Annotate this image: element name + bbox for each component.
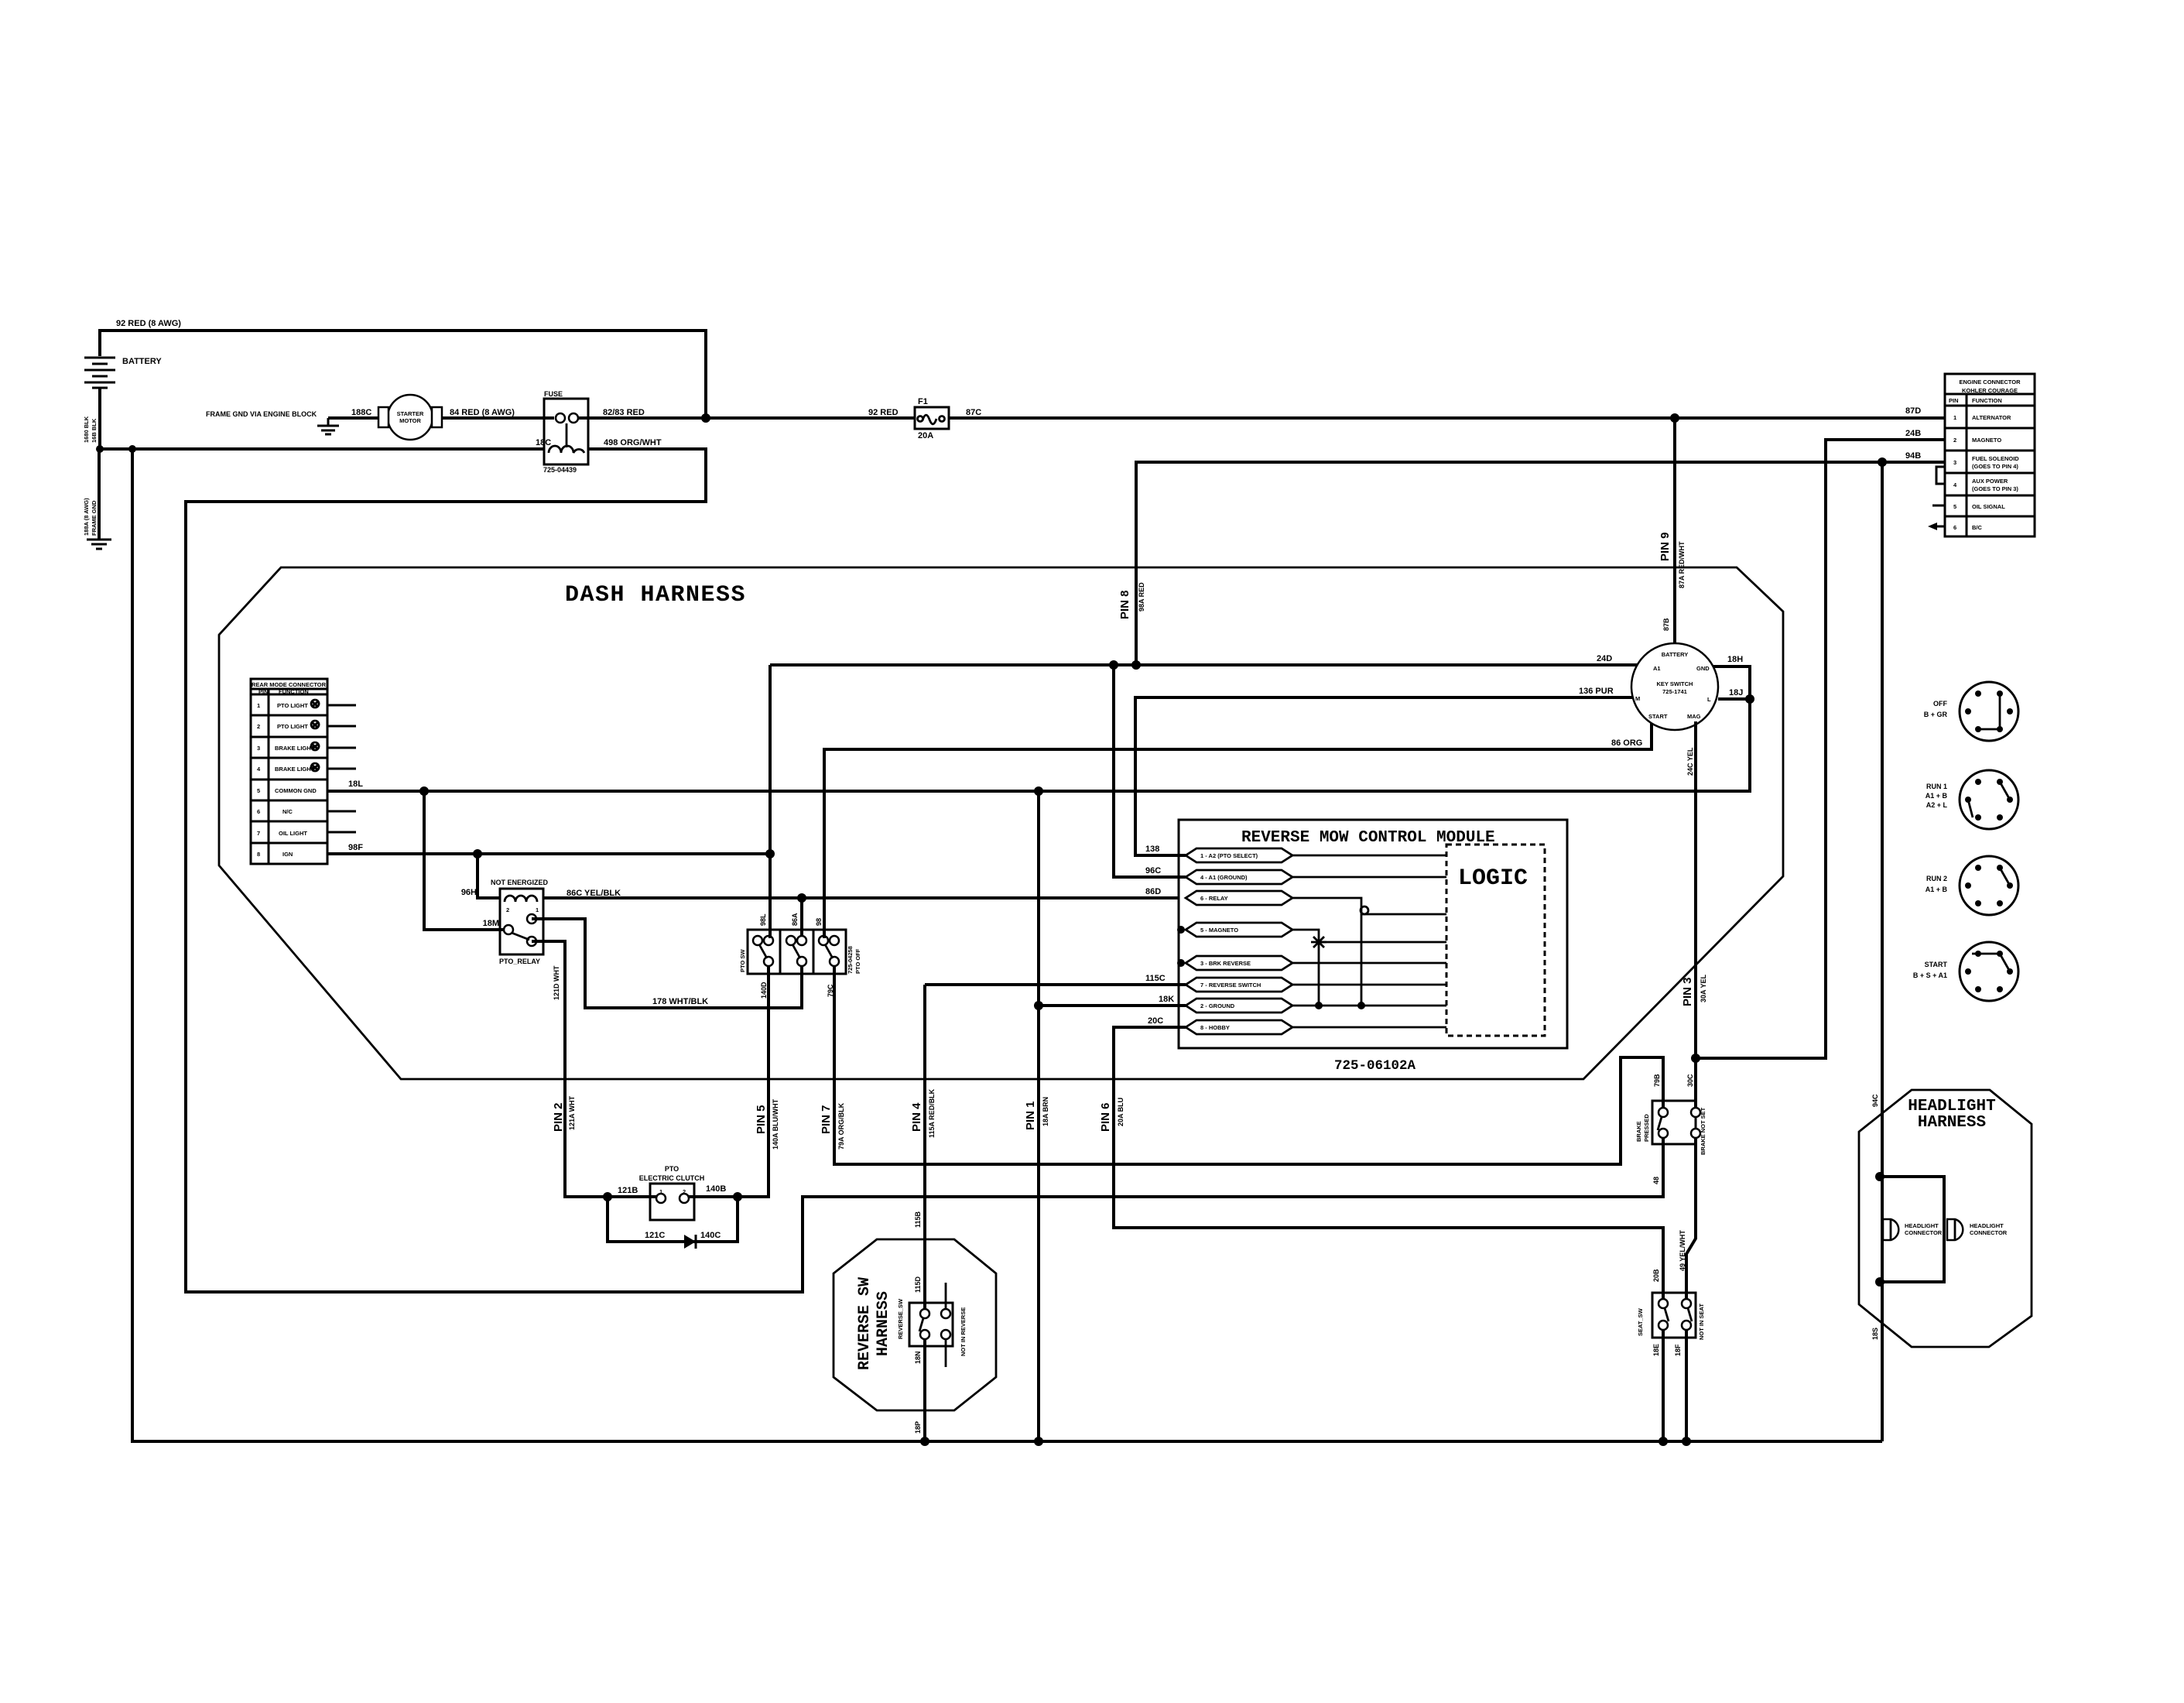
wire PIN 9 87B to key switch battery [1673,418,1676,643]
svg-text:6: 6 [1953,524,1956,531]
svg-text:138: 138 [1145,845,1159,854]
svg-text:PTO LIGHT: PTO LIGHT [277,723,308,730]
svg-text:HEADLIGHT: HEADLIGHT [1970,1222,2004,1229]
svg-text:ENGINE CONNECTOR: ENGINE CONNECTOR [1959,379,2021,385]
svg-text:B + S + A1: B + S + A1 [1913,971,1947,979]
module pill 6 - RELAY [1186,891,1292,905]
svg-text:HEADLIGHT: HEADLIGHT [1908,1098,1995,1115]
wire 121D WHT relay NC contact down PIN 2 [532,941,656,1197]
svg-text:20A: 20A [918,431,933,440]
reverse switch NC stub pins [945,1283,947,1367]
svg-text:84 RED (8 AWG): 84 RED (8 AWG) [450,408,515,417]
module internal ground row to logic [1292,1005,1446,1007]
svg-text:725-06102A: 725-06102A [1334,1058,1416,1074]
svg-text:20C: 20C [1148,1016,1163,1026]
node key L junction [1745,694,1754,704]
svg-text:PIN 2: PIN 2 [552,1102,565,1132]
wire 178 WHT/BLK relay NO contact to switch 2 bottom [532,919,802,1008]
wire frame ground rail bottom [132,449,1882,1441]
rear mode connector table [251,679,327,864]
svg-text:92 RED: 92 RED [868,408,899,417]
module internal wire pill2 to logic [1292,876,1446,879]
svg-text:1: 1 [659,1188,662,1195]
wire 18F seat switch right to rail [1685,1329,1688,1441]
node PIN 9 tap junction [1670,413,1679,423]
clutch pins [656,1194,666,1203]
svg-text:PTO LIGHT: PTO LIGHT [277,702,308,709]
svg-text:B + GR: B + GR [1924,711,1948,718]
svg-text:18L: 18L [348,780,363,789]
svg-text:87C: 87C [966,408,981,417]
module pill 3 - BRK REVERSE [1186,956,1292,970]
svg-text:DASH HARNESS: DASH HARNESS [565,582,746,608]
connector stub wires rows 1,2,3,4,6,7 [327,705,356,832]
svg-text:49 YEL/WHT: 49 YEL/WHT [1679,1230,1686,1271]
diode D1 [684,1235,696,1249]
wire PIN 5 140A BLU/WHT switch1 bottom to clutch [689,965,769,1197]
svg-text:(GOES TO PIN 3): (GOES TO PIN 3) [1972,485,2018,492]
svg-text:16B BLK: 16B BLK [91,418,98,443]
svg-text:START: START [1925,961,1948,968]
svg-text:2: 2 [683,1188,686,1195]
svg-text:B/C: B/C [1972,524,1983,531]
module internal wire pill6 to logic [1292,984,1446,986]
node 92 RED junction at solenoid output [701,413,710,423]
wire 18K ground to pill 2 [1039,1004,1186,1007]
svg-text:RUN 1: RUN 1 [1926,783,1947,790]
wire 115C reverse switch to pill 7 [925,983,1186,986]
svg-text:115D: 115D [914,1276,922,1293]
wire 498 ORG/WHT coil return long loop [186,449,1663,1292]
svg-text:98: 98 [815,918,823,926]
svg-text:PIN: PIN [1949,397,1959,404]
node headlight bottom junction [1875,1277,1884,1287]
svg-text:A1 + B: A1 + B [1926,792,1948,800]
svg-text:PIN 4: PIN 4 [910,1102,923,1132]
svg-text:30A YEL: 30A YEL [1700,974,1707,1002]
svg-text:FUNCTION: FUNCTION [1972,397,2002,404]
starter motor M1 [388,395,433,440]
svg-text:PIN 1: PIN 1 [1024,1101,1037,1130]
svg-text:5: 5 [1953,503,1956,510]
svg-text:CONNECTOR: CONNECTOR [1905,1229,1943,1236]
svg-text:24B: 24B [1905,429,1921,438]
svg-text:FUSE: FUSE [544,390,563,398]
svg-text:140D: 140D [760,982,768,999]
wire 84 RED (8 AWG) starter to solenoid [442,416,554,420]
wire 96H relay coil feed [478,854,500,898]
svg-text:MAG: MAG [1687,713,1701,720]
reverse switch blade [919,1318,923,1331]
svg-text:2 - GROUND: 2 - GROUND [1200,1002,1235,1009]
svg-text:98A RED: 98A RED [1138,582,1145,612]
svg-text:COMMON GND: COMMON GND [275,787,317,794]
node clutch left junction [603,1192,612,1201]
svg-text:79A ORG/BLK: 79A ORG/BLK [837,1102,845,1150]
brake switch blade [1658,1117,1662,1130]
node magneto junction at PIN 3 [1691,1054,1700,1063]
svg-text:(GOES TO PIN 4): (GOES TO PIN 4) [1972,463,2018,470]
svg-text:LOGIC: LOGIC [1458,865,1528,892]
headlight lamp left [1883,1219,1898,1240]
svg-text:PTO: PTO [665,1165,679,1173]
svg-text:NOT IN REVERSE: NOT IN REVERSE [960,1307,967,1356]
svg-text:L: L [1707,696,1711,703]
ground engine block symbol [317,426,339,434]
module pill 5 - MAGNETO [1186,923,1292,937]
module pill 8 - HOBBY [1186,1020,1292,1034]
reverse sw harness octagon [834,1239,996,1410]
node 86C to PTO switch 2 [797,893,806,903]
svg-text:5 - MAGNETO: 5 - MAGNETO [1200,927,1238,934]
svg-text:MOTOR: MOTOR [399,417,421,424]
node rail seat left [1659,1437,1668,1446]
svg-text:STARTER: STARTER [397,410,424,417]
svg-text:18N: 18N [914,1351,922,1364]
wire battery negative to node [98,388,101,449]
wire arrow pin 6 [1934,526,1945,528]
svg-text:24C YEL: 24C YEL [1686,747,1694,776]
svg-text:3 - BRK REVERSE: 3 - BRK REVERSE [1200,960,1251,967]
wire PIN 1 18A BRN ground drop [1037,791,1040,1441]
svg-text:7 - REVERSE SWITCH: 7 - REVERSE SWITCH [1200,982,1261,989]
svg-text:6 - RELAY: 6 - RELAY [1200,895,1228,902]
svg-text:115C: 115C [1145,974,1166,983]
node 24D to 96C branch [1109,660,1118,670]
svg-text:48: 48 [1652,1177,1660,1184]
svg-text:ALTERNATOR: ALTERNATOR [1972,414,2011,421]
node ground bus to module [1034,786,1043,796]
svg-text:6: 6 [257,808,260,815]
wire 188C to starter motor [328,416,379,420]
node clutch right junction [733,1192,742,1201]
svg-text:115A RED/BLK: 115A RED/BLK [928,1088,936,1138]
node magneto zener to ground [1315,1002,1323,1009]
wire 24D key A1 feed [770,663,1638,666]
wire 18L ground bus [327,666,1750,791]
module internal wire magneto with zener to ground [1292,930,1446,1006]
brake switch box [1652,1101,1696,1144]
svg-text:A1 + B: A1 + B [1926,886,1948,893]
node battery negative junction [96,445,104,453]
svg-text:8 - HOBBY: 8 - HOBBY [1200,1024,1230,1031]
svg-text:PIN 3: PIN 3 [1681,977,1694,1006]
svg-text:20A BLU: 20A BLU [1117,1098,1125,1126]
svg-text:FRAME GND: FRAME GND [91,500,98,536]
key position diagram RUN 1 [1960,770,2018,829]
LOGIC box dashed [1446,845,1545,1036]
svg-text:24D: 24D [1597,654,1612,663]
wire 18J key L stub [1718,697,1750,701]
svg-text:725-04439: 725-04439 [543,466,577,474]
svg-text:7: 7 [257,830,260,837]
node 98F to relay coil [473,849,482,858]
svg-text:98F: 98F [348,843,363,852]
svg-text:SEAT_SW: SEAT_SW [1637,1307,1644,1336]
svg-text:121B: 121B [618,1186,638,1195]
svg-text:82/83 RED: 82/83 RED [603,408,645,417]
wire 18N reverse switch to ground rail [923,1338,926,1441]
seat switch box [1652,1293,1696,1338]
wire 92 RED top run from battery [100,331,706,418]
svg-text:BRAKE: BRAKE [1635,1121,1642,1142]
svg-text:2: 2 [257,723,260,730]
relay contacts [504,925,513,934]
svg-text:94C: 94C [1871,1094,1879,1107]
svg-text:87D: 87D [1905,406,1921,416]
wire 87C/87D main feed to engine connector [949,416,1945,420]
dash harness outline octagon [219,567,1783,1079]
svg-text:178 WHT/BLK: 178 WHT/BLK [652,997,708,1006]
svg-text:5: 5 [257,787,260,794]
PTO switch pins [753,936,762,945]
svg-text:HEADLIGHT: HEADLIGHT [1905,1222,1939,1229]
node frame ground rail junction [128,445,136,453]
svg-text:OIL LIGHT: OIL LIGHT [279,830,307,837]
svg-text:140C: 140C [700,1231,721,1240]
svg-text:F1: F1 [918,397,928,406]
svg-text:1: 1 [257,702,260,709]
wire 24C YEL key MAG down PIN 3 [1694,721,1697,1109]
node headlight top junction [1875,1172,1884,1181]
svg-text:140A BLU/WHT: 140A BLU/WHT [772,1098,779,1150]
svg-text:BATTERY: BATTERY [1662,651,1689,658]
wire 98F ignition feed [327,852,770,855]
wire 18M relay common [424,791,504,930]
reverse switch pins [920,1309,929,1318]
wire stub pin 5 [1932,505,1945,507]
svg-text:1680 BLK: 1680 BLK [83,416,90,443]
svg-text:MAGNETO: MAGNETO [1972,437,2001,444]
svg-text:REVERSE SW: REVERSE SW [856,1277,874,1370]
svg-text:86 ORG: 86 ORG [1611,738,1642,748]
svg-text:18S: 18S [1871,1328,1879,1340]
solenoid coil [549,446,584,453]
svg-text:IGN: IGN [282,851,293,858]
svg-text:AUX POWER: AUX POWER [1972,478,2008,485]
svg-text:18J: 18J [1729,688,1743,697]
svg-text:PIN 7: PIN 7 [820,1105,833,1134]
svg-text:498 ORG/WHT: 498 ORG/WHT [604,438,662,447]
svg-text:CONNECTOR: CONNECTOR [1970,1229,2008,1236]
module REVERSE MOW CONTROL MODULE box [1179,820,1567,1048]
key position diagram START [1960,942,2018,1001]
svg-text:136 PUR: 136 PUR [1579,687,1614,696]
svg-text:KEY SWITCH: KEY SWITCH [1657,680,1693,687]
svg-text:N/C: N/C [282,808,293,815]
module pill 1 - A2 (PTO SELECT) [1186,848,1292,862]
svg-text:2: 2 [1953,437,1956,444]
wire 20C pill 8 down PIN 6 [1114,1027,1663,1299]
PTO switch blades [759,944,767,958]
fuse F1 20A [915,407,949,429]
svg-text:PIN 8: PIN 8 [1118,590,1131,619]
svg-text:121A WHT: 121A WHT [568,1095,576,1130]
PTO switch bank box 725-04258 [748,930,846,974]
solenoid contact pins [556,413,565,423]
wire 49 YEL/WHT brake to seat switch [1686,1137,1696,1299]
wire engine block ground tap [327,418,330,425]
relay blade [512,933,529,940]
svg-text:PRESSED: PRESSED [1643,1114,1650,1142]
svg-text:18H: 18H [1727,655,1743,664]
brake switch pins [1659,1108,1668,1117]
svg-text:87A RED/WHT: 87A RED/WHT [1678,541,1686,588]
headlight harness octagon [1859,1090,2032,1347]
node 24D to PIN 8 [1131,660,1141,670]
ground frame GND symbol [87,540,111,549]
wire PIN 7 79A ORG/BLK switch3 bottom to brake switch [834,965,1663,1164]
svg-text:8: 8 [257,851,260,858]
wire stub 86C to switch 2 [800,898,803,938]
svg-text:30C: 30C [1686,1074,1694,1087]
reverse switch box [909,1303,953,1346]
node pill 3 arrow dot [1177,959,1185,967]
module internal wire pill1 to logic [1292,855,1446,857]
svg-text:REAR MODE CONNECTOR: REAR MODE CONNECTOR [252,681,327,688]
headlight lamp right [1947,1219,1963,1240]
svg-text:18E: 18E [1652,1344,1660,1356]
svg-text:FUEL SOLENOID: FUEL SOLENOID [1972,455,2019,462]
svg-text:PTO_RELAY: PTO_RELAY [499,958,540,965]
svg-text:115B: 115B [914,1211,922,1228]
svg-text:BRAKE LIGHT: BRAKE LIGHT [275,745,315,752]
module internal wire relay jog to logic [1292,898,1446,1006]
transistor curl at relay jog [1361,906,1368,914]
svg-text:A2 + L: A2 + L [1926,801,1948,809]
svg-text:18C: 18C [536,438,551,447]
svg-text:188A (8 AWG): 188A (8 AWG) [83,498,90,536]
node 94B junction to right-side feed [1878,457,1887,467]
wire jumper pin3 to pin4 [1936,467,1945,484]
node rail PIN 1 [1034,1437,1043,1446]
svg-text:96C: 96C [1145,866,1161,875]
wire PIN 4 115A RED/BLK to reverse switch [923,985,926,1310]
svg-text:140B: 140B [706,1184,726,1194]
wire 24B magneto run [1696,440,1945,1058]
wire negative bus to solenoid coil 18C [99,447,544,451]
node rail seat right [1682,1437,1691,1446]
wire PIN 8 98A RED from fuel solenoid row [1136,462,1945,665]
svg-text:18K: 18K [1159,995,1174,1004]
svg-text:98L: 98L [759,913,767,926]
svg-text:KOHLER COURAGE: KOHLER COURAGE [1962,387,2018,394]
svg-text:18F: 18F [1674,1344,1682,1356]
svg-text:86D: 86D [1145,887,1161,896]
battery B1 [84,358,115,388]
engine connector table [1945,374,2035,536]
svg-text:REVERSE_SW: REVERSE_SW [897,1298,904,1339]
relay PTO_RELAY box [500,889,543,954]
svg-text:2: 2 [506,906,509,913]
svg-text:BATTERY: BATTERY [122,357,162,366]
wire 94C feed down right side [1881,462,1884,1441]
svg-text:FRAME GND VIA ENGINE BLOCK: FRAME GND VIA ENGINE BLOCK [206,410,317,418]
svg-text:3: 3 [1953,459,1956,466]
wire 86 ORG key START to PTO switch 3 [824,721,1652,938]
svg-text:A1: A1 [1653,665,1661,672]
svg-text:1: 1 [536,906,539,913]
relay coil [505,896,537,902]
wire 96C branch to module pill 2 [1114,665,1186,877]
module internal wire pill5 to logic [1292,962,1446,965]
svg-text:HARNESS: HARNESS [875,1291,892,1356]
svg-text:92 RED (8 AWG): 92 RED (8 AWG) [116,319,181,328]
svg-text:3: 3 [257,745,260,752]
svg-text:1 - A2 (PTO SELECT): 1 - A2 (PTO SELECT) [1200,852,1258,859]
svg-text:96H: 96H [461,888,477,897]
wire 86C YEL/BLK relay coil to module [543,896,1179,899]
svg-text:94B: 94B [1905,451,1921,461]
svg-text:4 - A1 (GROUND): 4 - A1 (GROUND) [1200,874,1248,881]
node 98F to PTO switch [765,849,775,858]
svg-text:PIN: PIN [258,688,269,695]
seat switch pins [1659,1299,1668,1308]
svg-text:PIN 5: PIN 5 [755,1105,768,1134]
svg-text:RUN 2: RUN 2 [1926,875,1947,882]
node relay return to ground [1357,1002,1365,1009]
svg-text:18P: 18P [914,1421,922,1434]
svg-text:OIL SIGNAL: OIL SIGNAL [1972,503,2005,510]
svg-text:121D WHT: 121D WHT [553,965,560,1000]
seat switch blades [1665,1308,1669,1321]
svg-text:OFF: OFF [1933,700,1947,708]
node ground bus to relay [419,786,429,796]
svg-text:1: 1 [1953,414,1956,421]
lamp icons rows 1-4 [311,700,319,771]
zener diode Z1 [1311,937,1326,947]
svg-text:725-04258: 725-04258 [847,946,854,974]
svg-text:PIN 9: PIN 9 [1659,532,1672,561]
svg-text:PTO SW: PTO SW [739,949,746,972]
svg-text:86C YEL/BLK: 86C YEL/BLK [567,889,621,898]
wire 24D down to PTO switch 1 [769,665,772,938]
svg-text:20B: 20B [1652,1269,1660,1282]
key position diagram RUN 2 [1960,856,2018,915]
svg-text:M: M [1635,695,1640,702]
svg-text:FUNCTION: FUNCTION [279,688,309,695]
svg-text:ELECTRIC CLUTCH: ELECTRIC CLUTCH [639,1174,705,1182]
key position diagram OFF [1960,682,2018,741]
svg-text:121C: 121C [645,1231,665,1240]
svg-text:PIN 6: PIN 6 [1099,1102,1112,1132]
node rail reverse switch [920,1437,929,1446]
svg-text:BRAKE LIGHT: BRAKE LIGHT [275,766,315,773]
svg-text:PTO OFF: PTO OFF [854,948,861,974]
svg-text:18M: 18M [483,919,499,928]
module pill 7 - REVERSE SWITCH [1186,978,1292,992]
svg-text:GND: GND [1696,665,1710,672]
node pill 5 arrow dot [1177,926,1185,934]
solenoid/fuse box 725-04439 [544,399,588,464]
svg-text:HARNESS: HARNESS [1918,1114,1986,1132]
svg-text:NOT ENERGIZED: NOT ENERGIZED [491,879,549,886]
svg-text:87B: 87B [1662,618,1670,631]
svg-text:START: START [1648,713,1668,720]
svg-text:NOT IN SEAT: NOT IN SEAT [1698,1304,1705,1340]
svg-text:86A: 86A [791,913,799,926]
module pill 2 - GROUND [1186,999,1292,1013]
wire 82/83 RED solenoid to junction [578,416,915,420]
svg-text:725-1741: 725-1741 [1662,688,1687,695]
headlight loop wires [1880,1177,1944,1282]
svg-text:188C: 188C [351,408,371,417]
svg-text:18A BRN: 18A BRN [1042,1097,1049,1126]
key switch KS1 725-1741 [1631,643,1718,730]
module pill 4 - A1 (GROUND) [1186,870,1292,884]
wire 18E seat switch left to rail [1662,1329,1665,1441]
module internal wire pill8 to logic [1292,1026,1446,1029]
